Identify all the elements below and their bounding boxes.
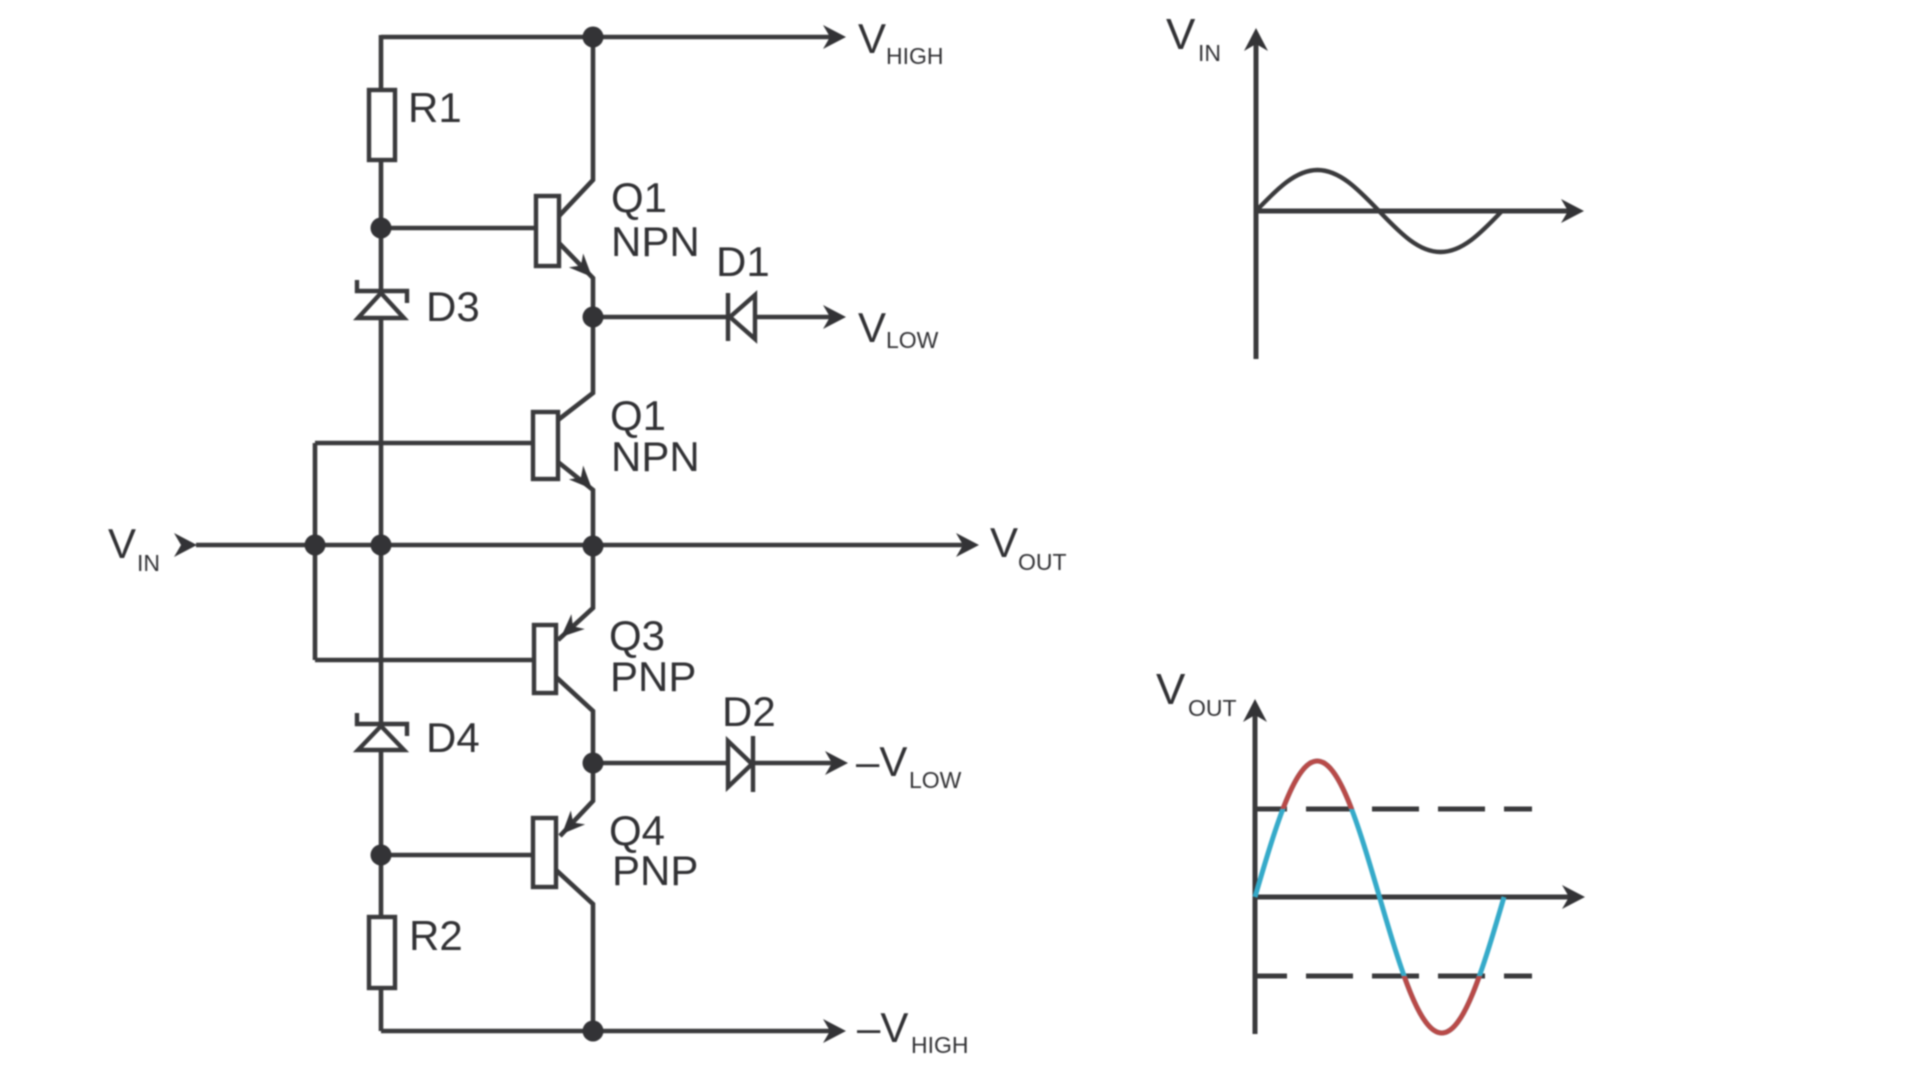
transistor Q1 top NPN [536,174,700,284]
svg-text:IN: IN [1198,40,1221,66]
node VIN rail junction [371,535,392,556]
wire top rail from left rail corner to VHIGH arrow [381,35,838,40]
svg-text:R1: R1 [408,84,462,131]
VOUT clip level dashed upper [1257,807,1532,812]
svg-text:–V: –V [856,738,907,785]
VIN waveform sine [1256,170,1502,252]
svg-text:OUT: OUT [1188,695,1237,721]
transistor Q4 PNP [533,807,698,894]
VIN waveform axis vertical [1256,42,1572,359]
svg-text:PNP: PNP [610,653,696,700]
node VLOW junction [583,307,604,328]
zener diode D3 [357,280,407,318]
wire Q2 collector to VLOW node [558,317,593,420]
VOUT waveform axis horizontal [1255,895,1573,900]
wire D3 to VIN line [379,318,384,545]
net VLOW arrow and label [823,304,939,353]
wire Q1 emitter to VLOW node [559,243,593,317]
svg-text:D1: D1 [716,238,770,285]
svg-text:NPN: NPN [611,218,700,265]
net -VHIGH arrow and label [823,1004,969,1058]
svg-text:Q1: Q1 [611,174,667,221]
svg-text:R2: R2 [409,912,463,959]
diode D1 [728,293,755,341]
wire VIN line to D4 [379,545,384,724]
svg-text:PNP: PNP [612,847,698,894]
svg-text:HIGH: HIGH [886,43,944,69]
zener diode D4 [357,713,407,750]
svg-text:LOW: LOW [909,767,962,793]
net VIN input arrow and label [108,520,197,576]
resistor R1 [369,84,462,160]
VOUT waveform axis vertical [1255,713,1573,1034]
svg-text:Q3: Q3 [609,612,665,659]
wire Q3 emitter from VOUT node [558,545,593,640]
node VIN loop junction [305,535,326,556]
VOUT clip level dashed lower [1257,974,1532,979]
wire D1 to VLOW arrow [755,315,832,320]
svg-text:LOW: LOW [886,327,939,353]
svg-text:NPN: NPN [611,433,700,480]
svg-text:D4: D4 [426,714,480,761]
svg-text:V: V [990,519,1018,566]
svg-text:IN: IN [137,550,160,576]
svg-text:V: V [1156,665,1186,714]
node VOUT junction [583,536,604,557]
VIN waveform axis horizontal [1256,209,1572,214]
svg-text:V: V [108,520,136,567]
svg-text:D3: D3 [426,283,480,330]
wire Q4 base from node to bar [381,853,533,858]
wire bottom rail to -VHIGH arrow [381,1029,838,1034]
svg-text:V: V [1166,10,1196,59]
transistor Q2 (labelled Q1) NPN [533,392,700,496]
net VOUT arrow and label [956,519,1067,575]
wire VOUT from node to arrow [593,543,971,548]
node junction Q1 base [371,218,392,239]
svg-text:HIGH: HIGH [911,1032,969,1058]
wire left rail top segment into R1 [379,35,384,90]
node -VLOW junction [583,753,604,774]
wire left feedback loop (Q2/Q3 bases) [315,441,533,446]
svg-text:OUT: OUT [1018,549,1067,575]
resistor R2 [369,912,463,988]
svg-text:D2: D2 [722,688,776,735]
wire Q1 base from node to bar [381,226,536,231]
VOUT waveform sine cyan [1255,761,1504,1033]
wire -VLOW node to D2 [593,761,728,766]
wire D4 to R2 [379,750,384,917]
svg-text:–V: –V [857,1004,908,1051]
diode D2 [728,736,753,792]
wire Q2 emitter to VOUT node [558,462,593,545]
wire VIN input horizontal [196,543,593,548]
wire Q4 collector to bottom rail [556,870,593,1031]
net VHIGH arrow and label [823,15,944,69]
wire R1 bottom to D3 [379,160,384,291]
wire Q4 emitter from -VLOW node [560,763,593,836]
wire VLOW node to D1 [593,315,728,320]
wire Q1 collector [559,37,593,216]
transistor Q3 PNP [534,612,696,700]
svg-text:V: V [858,15,886,62]
node junction top rail [583,27,604,48]
net -VLOW arrow and label [825,738,962,793]
wire Q3 collector to -VLOW node [556,677,593,763]
wire R2 to bottom rail corner [379,988,384,1031]
node bottom rail junction [583,1021,604,1042]
svg-text:Q1: Q1 [610,392,666,439]
node Q4 base junction [371,845,392,866]
svg-text:V: V [858,304,886,351]
wire D2 to -VLOW arrow [754,761,840,766]
